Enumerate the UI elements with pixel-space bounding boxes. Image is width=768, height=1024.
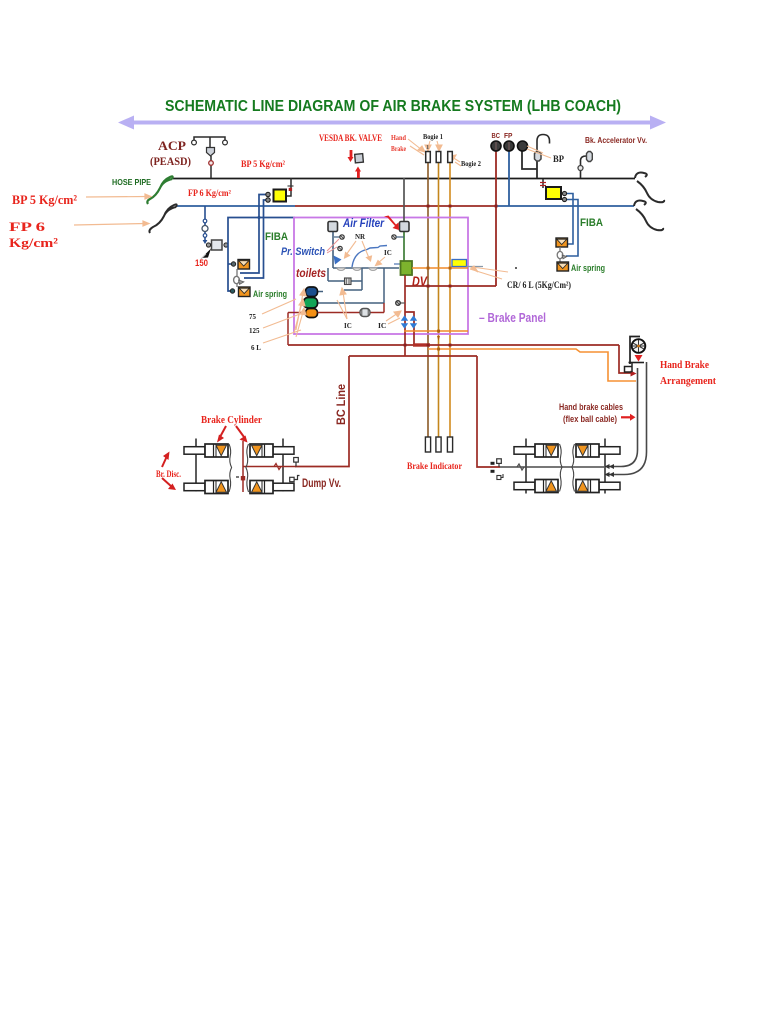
svg-text:Dump Vv.: Dump Vv. <box>302 478 341 490</box>
air filter right <box>400 222 410 232</box>
annotation arrows bogie <box>408 139 461 166</box>
brake panel rectangle purple <box>294 218 468 335</box>
svg-text:Bk. Accelerator Vv.: Bk. Accelerator Vv. <box>585 135 647 145</box>
wire BC line mid dark red <box>295 205 496 207</box>
tank feet <box>337 268 345 270</box>
red arrow cables <box>621 414 636 421</box>
wire air filter to DV green <box>403 231 405 262</box>
brake cylinder left bottom-left <box>184 481 228 494</box>
wire right bogie axle 1 <box>525 439 527 494</box>
fittings right pipe <box>498 463 500 467</box>
brake cylinder right bottom-right <box>576 480 620 493</box>
fitting on BC pipe <box>295 462 297 467</box>
red arrows brake cylinder <box>217 426 248 443</box>
svg-text:Kg/cm²: Kg/cm² <box>9 235 58 250</box>
svg-text:Air Filter: Air Filter <box>342 216 385 230</box>
svg-text:NR: NR <box>355 233 366 241</box>
lever valve right <box>559 247 561 262</box>
wire BC line left vertical <box>295 356 349 467</box>
svg-text:FP: FP <box>504 131 513 140</box>
FIBA valve left yellow box <box>274 190 287 202</box>
svg-text:Bogie 1: Bogie 1 <box>423 132 443 141</box>
blue flag <box>334 256 342 265</box>
svg-text:FP 6 Kg/cm²: FP 6 Kg/cm² <box>188 188 231 198</box>
air spring envelope left 2 <box>239 287 251 297</box>
air spring envelope right 2 <box>557 262 569 271</box>
tank ports <box>334 236 340 238</box>
air spring envelope left 1 <box>238 260 250 270</box>
annotation arrows CR <box>470 266 508 279</box>
ports right yellow box <box>562 191 566 195</box>
gauge FP <box>504 141 514 151</box>
svg-text:150: 150 <box>195 258 208 268</box>
wire FP feed pipe right blue <box>496 205 634 207</box>
svg-text:FIBA: FIBA <box>580 217 603 229</box>
svg-text:IC: IC <box>378 321 386 330</box>
svg-text:FP 6: FP 6 <box>9 219 46 234</box>
annotation arrows NR / Pr.Switch <box>345 241 386 266</box>
svg-text:VESDA BK. VALVE: VESDA BK. VALVE <box>319 134 382 144</box>
svg-text:Br. Disc.: Br. Disc. <box>156 469 181 479</box>
wire air filter drop right grey <box>403 178 405 222</box>
svg-text:BC Line: BC Line <box>336 384 348 425</box>
right FIBA feed stub <box>542 179 544 188</box>
svg-text:Brake Indicator: Brake Indicator <box>407 461 462 471</box>
hand brake wheel <box>632 339 646 353</box>
port right filter <box>392 235 396 239</box>
wire left bogie axle 1 <box>195 439 197 492</box>
wire bogie pipe 2 goldenrod <box>438 152 440 437</box>
wire BC gauge drop dark red <box>495 149 497 286</box>
hose pipe FP left black <box>149 204 176 233</box>
svg-text:Air spring: Air spring <box>253 289 287 299</box>
brace left pair <box>229 444 232 492</box>
wire FP drop left blue <box>204 206 206 240</box>
svg-text:(PEASD): (PEASD) <box>150 154 191 168</box>
wire DV to BC gauge loop red <box>405 285 496 287</box>
svg-text:BP 5 Kg/cm²: BP 5 Kg/cm² <box>12 192 77 207</box>
wire BP brake pipe black <box>172 178 635 180</box>
toilet capsule orange <box>306 309 318 318</box>
VESDA red arrows <box>348 150 362 178</box>
mount table <box>629 362 645 364</box>
accelerator bulb <box>587 152 593 162</box>
svg-text:125: 125 <box>249 327 260 335</box>
gauge BP cock <box>518 141 528 151</box>
svg-text:CR/ 6 L (5Kg/Cm²): CR/ 6 L (5Kg/Cm²) <box>507 280 571 291</box>
annotation arrows IC <box>294 288 401 337</box>
wire DV down red <box>404 275 406 356</box>
air spring envelope right 1 <box>556 238 568 247</box>
wires from right yellow box blue <box>562 194 578 257</box>
bogie isolating cock 1 <box>426 152 431 163</box>
svg-text:Brake: Brake <box>391 144 407 153</box>
blue flow arrows <box>401 315 417 328</box>
wire orange capsule red <box>288 303 384 345</box>
wire left bogie BC vertical red <box>242 441 244 492</box>
dump valve fitting <box>294 476 300 480</box>
svg-text:ACP: ACP <box>158 138 186 153</box>
brake cylinder left top-left <box>184 444 228 457</box>
red ticks <box>540 183 546 186</box>
bogie isolating cock 2 <box>436 152 441 163</box>
hand brake cables grey <box>608 362 647 475</box>
grey capsule on red line <box>360 309 370 317</box>
brake indicator rect 2 <box>436 437 441 452</box>
toilet capsule blue <box>306 287 318 297</box>
svg-text:1: 1 <box>426 144 429 151</box>
blue pipe curve inside tank <box>352 246 387 268</box>
wire BC branch left y356 <box>349 355 477 357</box>
wires from left yellow box blue <box>240 195 268 279</box>
wire bogie pipe 1 brown <box>427 152 429 437</box>
wire right bogie axle 2 <box>604 439 606 494</box>
wire BC pipe to left bogie red <box>243 466 296 468</box>
brake cylinder right top-left <box>514 444 558 457</box>
svg-text:Bogie 2: Bogie 2 <box>461 159 481 168</box>
filter regulator 150 box <box>212 240 223 250</box>
gauge BC <box>491 141 501 151</box>
FIBA valve right yellow box <box>546 187 561 199</box>
air filter left <box>328 222 338 232</box>
svg-text:toilets: toilets <box>296 266 326 280</box>
svg-text:BP: BP <box>553 155 564 165</box>
brake indicator rect 3 <box>447 437 452 452</box>
wire orange DV to CR <box>412 267 468 269</box>
svg-text:Hand Brake: Hand Brake <box>660 359 709 371</box>
BP gauge bulb <box>535 152 542 162</box>
svg-text:Arrangement: Arrangement <box>660 375 716 387</box>
lever valve left <box>236 269 238 287</box>
svg-text:HOSE PIPE: HOSE PIPE <box>112 177 151 187</box>
wire FP feed pipe left blue <box>176 205 295 207</box>
distributor valve DV green <box>401 261 413 275</box>
brake cylinder left top-right <box>250 444 294 457</box>
hose pipe BP left green <box>147 176 172 204</box>
wire right bogie pipe grey <box>500 466 604 468</box>
svg-text:Air spring: Air spring <box>571 263 605 273</box>
ACP valve body <box>207 148 215 157</box>
port on DV line <box>400 302 405 304</box>
DV blue stub <box>394 263 401 265</box>
wire BP gauge piping black <box>522 135 550 179</box>
brake cylinder left bottom-right <box>250 481 294 494</box>
wire BC right vertical <box>477 356 500 467</box>
bogie isolating cock 3 <box>448 152 453 163</box>
svg-text:BC: BC <box>492 131 501 140</box>
junction dots <box>404 205 498 347</box>
wire air filter drop left <box>332 231 334 268</box>
wire red branch x414 <box>405 312 414 345</box>
toilet branch wires blue <box>317 268 384 303</box>
svg-text:Hand brake cables: Hand brake cables <box>559 402 623 413</box>
wire green capsule vertical blue <box>383 268 385 303</box>
wire orange lower <box>404 330 468 332</box>
brace right pair <box>560 444 563 492</box>
red arrow below wheel <box>635 355 643 362</box>
svg-text:IC: IC <box>384 249 392 257</box>
svg-text:FIBA: FIBA <box>265 231 288 243</box>
annotation arrows BP <box>527 146 551 158</box>
svg-text:BP 5 Kg/cm²: BP 5 Kg/cm² <box>241 160 285 170</box>
title underline double arrow <box>118 116 666 130</box>
svg-text:6 L: 6 L <box>251 344 261 352</box>
VESDA valve box <box>355 154 364 163</box>
wire BC main horizontal red y345 <box>288 344 619 346</box>
hose pipe FP right <box>634 201 663 231</box>
accelerator valve piping <box>581 156 587 178</box>
svg-text:Brake Cylinder: Brake Cylinder <box>201 415 262 426</box>
brake cylinder right bottom-left <box>514 480 558 493</box>
CR reservoir yellow <box>452 260 467 267</box>
annotation arrows to hoses <box>74 194 151 226</box>
left yellow box feed wire <box>286 178 291 196</box>
svg-text:75: 75 <box>249 313 257 321</box>
svg-text:IC: IC <box>344 322 352 330</box>
black annotation arrow 150 <box>202 249 212 259</box>
red arrow air filter <box>384 216 399 231</box>
wire bogie pipe 3 orange <box>449 152 451 437</box>
tank outline blue <box>333 267 399 269</box>
wire FIBA left blue L <box>228 218 295 292</box>
wire left bogie axle 2 <box>282 439 284 492</box>
inline valve <box>345 278 352 285</box>
wire red to hand brake <box>619 345 633 373</box>
svg-text:(flex ball cable): (flex ball cable) <box>563 414 617 425</box>
ACP node <box>209 161 214 166</box>
svg-text:SCHEMATIC LINE DIAGRAM OF AIR: SCHEMATIC LINE DIAGRAM OF AIR BRAKE SYST… <box>165 98 621 115</box>
wire orange to hand brake <box>428 349 636 381</box>
ports left yellow box <box>266 192 270 196</box>
hose pipe BP right <box>635 173 664 203</box>
hand brake bracket <box>630 337 640 365</box>
svg-text:– Brake Panel: – Brake Panel <box>479 311 546 325</box>
brake indicator rect 1 <box>425 437 430 452</box>
svg-text:Pr. Switch: Pr. Switch <box>281 246 325 258</box>
toilet capsule green <box>304 298 318 309</box>
brake cylinder right top-right <box>576 444 620 457</box>
accelerator node <box>578 166 583 171</box>
svg-text:Hand: Hand <box>391 133 407 142</box>
ACP pull handle wire <box>194 137 225 178</box>
wire FP gauge drop blue <box>508 149 510 206</box>
